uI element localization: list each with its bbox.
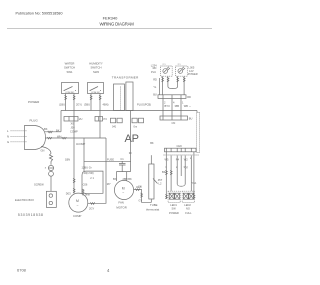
svg-text:N: N	[7, 135, 9, 139]
svg-text:ELECTRIC BOX: ELECTRIC BOX	[15, 198, 34, 202]
svg-text:Publication No: 5995518580: Publication No: 5995518580	[16, 12, 63, 16]
svg-text:WIRING DIAGRAM: WIRING DIAGRAM	[100, 21, 135, 26]
svg-text:2 1: 2 1	[90, 176, 94, 180]
svg-text:4BN): 4BN)	[103, 102, 109, 106]
svg-text:YE1: YE1	[192, 181, 197, 185]
pcb right border	[196, 111, 198, 113]
svg-text:WB: WB	[184, 104, 188, 108]
svg-text:FUSE: FUSE	[107, 157, 114, 161]
svg-text:TRANSFORMER: TRANSFORMER	[112, 75, 139, 79]
electric box	[46, 191, 56, 207]
humidity switch SW2 body	[88, 83, 104, 94]
water switch SW1 labels	[64, 62, 75, 74]
svg-text:12V: 12V	[189, 69, 194, 73]
water switch pin wires	[66, 94, 75, 111]
svg-text:SW1: SW1	[66, 70, 73, 74]
svg-text:C06: C06	[83, 183, 88, 187]
compressor motor M1	[69, 193, 88, 212]
svg-text:RD: RD	[187, 95, 191, 99]
inline connector block left	[64, 117, 78, 122]
connector bar CN2	[160, 116, 188, 120]
svg-text:MY: MY	[107, 182, 111, 186]
inline connector block right	[95, 117, 103, 122]
svg-text:0m: 0m	[134, 125, 138, 129]
svg-text:LED2: LED2	[184, 203, 191, 207]
svg-text:MOTOR: MOTOR	[116, 206, 126, 210]
svg-text:AP: AP	[125, 133, 140, 145]
header rule	[7, 27, 212, 29]
transformer connector block A	[111, 118, 116, 123]
svg-text:BU: BU	[153, 93, 157, 97]
svg-text:SW: SW	[172, 207, 177, 211]
svg-text:40(1.5R): 40(1.5R)	[84, 171, 94, 175]
fan right wire	[134, 190, 152, 203]
svg-text:LED1: LED1	[170, 203, 177, 207]
svg-text:BK: BK	[162, 170, 166, 174]
svg-text:PLU: PLU	[151, 70, 156, 74]
svg-text:BK: BK	[150, 141, 154, 145]
svg-text:BN: BN	[113, 177, 117, 181]
svg-text:P3: P3	[104, 117, 108, 121]
svg-text:COM NO: COM NO	[65, 92, 74, 94]
svg-text:TUBE: TUBE	[150, 203, 158, 207]
svg-text:FULL: FULL	[185, 211, 192, 215]
svg-text:R4: R4	[176, 158, 180, 162]
svg-text:M: M	[76, 199, 79, 203]
CN3 wires down	[166, 152, 194, 199]
full LED/switch box	[182, 191, 194, 202]
svg-text:FER340: FER340	[103, 15, 118, 20]
svg-text:D03: D03	[66, 192, 71, 196]
svg-text:C1: C1	[120, 157, 124, 161]
svg-text:BU: BU	[189, 116, 193, 120]
svg-text:1BN: 1BN	[65, 158, 70, 162]
ground wire squiggle	[49, 154, 52, 165]
tube thermostat	[149, 164, 154, 199]
svg-text:G: G	[7, 140, 9, 144]
svg-text:NO: NO	[186, 207, 190, 211]
CN2 stubs to bus	[163, 111, 181, 117]
svg-text:SW2: SW2	[93, 70, 100, 74]
svg-text:2GY): 2GY)	[76, 102, 82, 106]
svg-text:RD: RD	[153, 66, 157, 70]
svg-text:YL: YL	[153, 85, 157, 89]
svg-text:~: ~	[77, 204, 79, 208]
svg-text:RD: RD	[153, 78, 157, 82]
power plug body	[25, 126, 46, 150]
svg-text:*: *	[190, 105, 191, 109]
svg-text:FAN: FAN	[118, 201, 123, 205]
svg-text:COM NC: COM NC	[91, 92, 100, 94]
svg-text:04J: 04J	[112, 125, 117, 129]
svg-text:COMP: COMP	[70, 129, 78, 133]
fan motor top leads	[116, 172, 130, 181]
svg-text:2GY: 2GY	[89, 207, 94, 211]
svg-text:2U: 2U	[79, 117, 82, 121]
svg-text:3B5: 3B5	[175, 104, 180, 108]
LED box pin wires	[163, 76, 185, 95]
svg-text:BK: BK	[44, 127, 48, 131]
svg-text:12BU Gr: 12BU Gr	[82, 165, 92, 169]
compressor right wire	[88, 138, 106, 203]
svg-text:~: ~	[122, 191, 124, 195]
svg-text:GY: GY	[139, 198, 143, 202]
humidity switch SW2 labels	[89, 62, 103, 74]
PCB connector bar CN1	[158, 95, 186, 99]
svg-text:PLUG: PLUG	[30, 119, 39, 123]
power LED/switch box	[168, 191, 180, 202]
fan motor M2	[114, 180, 133, 199]
svg-text:POWER: POWER	[28, 100, 40, 104]
svg-text:POWER: POWER	[169, 211, 179, 215]
svg-text:SCREW: SCREW	[34, 182, 44, 186]
svg-text:W5: W5	[165, 158, 169, 162]
svg-text:9mn: 9mn	[85, 192, 91, 196]
svg-text:(1BU: (1BU	[59, 102, 65, 106]
svg-text:(3BU: (3BU	[84, 102, 90, 106]
water switch SW1 body	[62, 83, 79, 94]
svg-text:thermostat: thermostat	[146, 208, 159, 212]
svg-text:POWER: POWER	[188, 72, 198, 76]
main bus wire	[61, 110, 197, 112]
wire from bus down-left	[60, 111, 62, 132]
svg-text:M: M	[122, 186, 125, 190]
wire to compressor	[73, 111, 75, 194]
svg-text:CN: CN	[138, 184, 142, 188]
CN1 pin stubs	[163, 98, 181, 110]
transformer T1 body	[114, 84, 125, 111]
svg-text:6708: 6708	[17, 268, 27, 273]
wire ptc to compressor	[82, 193, 84, 195]
humidity switch pin wires	[91, 94, 100, 139]
transformer connector block B	[132, 118, 137, 123]
svg-text:CHK: CHK	[177, 144, 183, 148]
ptc starter box	[82, 171, 103, 193]
svg-text:W2: W2	[184, 158, 188, 162]
svg-text:PLUG(PCB): PLUG(PCB)	[137, 103, 151, 107]
svg-text:3(y): 3(y)	[184, 165, 189, 169]
svg-text:BT.0: BT.0	[165, 104, 171, 108]
svg-text:GN: GN	[41, 149, 45, 153]
svg-text:J00: J00	[71, 125, 76, 129]
svg-text:COMP: COMP	[73, 214, 82, 218]
wire to fan cap	[84, 160, 131, 162]
svg-text:45T: 45T	[158, 178, 163, 182]
svg-text:5303918538: 5303918538	[18, 213, 43, 217]
pcb bottom dashed	[164, 154, 200, 156]
svg-text:CN: CN	[172, 121, 176, 125]
